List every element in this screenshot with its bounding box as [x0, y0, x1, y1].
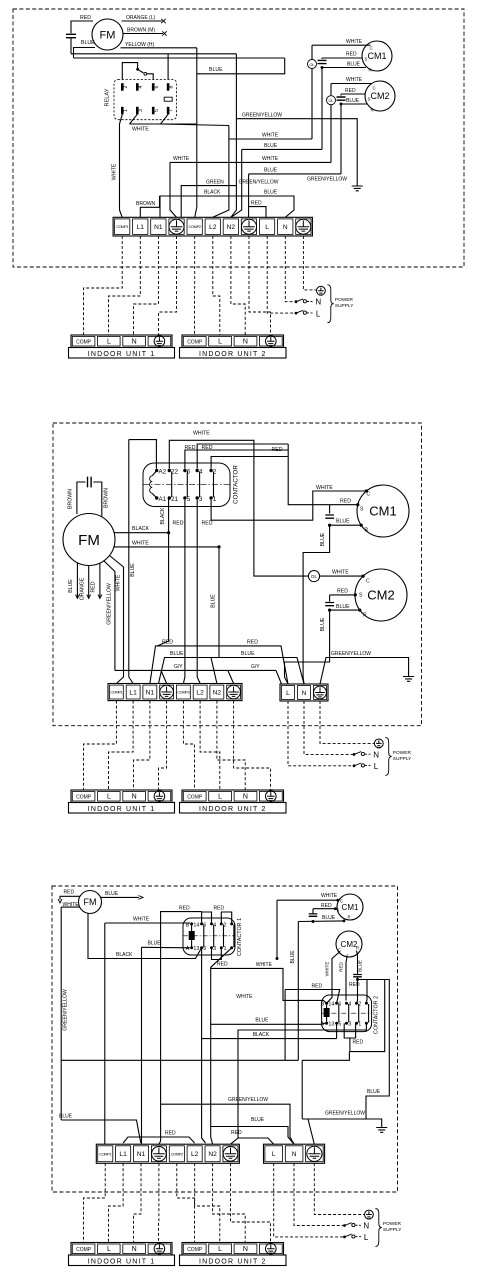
fan motor FM (diagram 1) [92, 19, 123, 50]
svg-text:5: 5 [203, 946, 206, 952]
wire G/Y b to earth (diagram 3) [302, 1119, 382, 1127]
contactor 1 pin 3 [220, 946, 223, 949]
svg-text:N: N [243, 1246, 248, 1253]
contactor 1 pin 14 [200, 922, 203, 925]
svg-text:RED: RED [231, 1130, 242, 1136]
power supply brace and label [327, 285, 333, 323]
wire BLACK from FM to contactor1 pin 13 [88, 913, 202, 958]
indoor unit block INDOOR UNIT 1 [71, 1243, 172, 1256]
capacitor on FM red lead [66, 34, 76, 37]
wire GREEN to earth terminal [181, 186, 236, 218]
wire WHITE to contactor1 B [105, 922, 190, 924]
svg-text:6: 6 [154, 85, 160, 88]
svg-text:BLUE: BLUE [320, 617, 326, 631]
svg-text:RED: RED [251, 200, 262, 206]
contactor pin 4 [196, 469, 199, 472]
svg-text:L: L [265, 224, 269, 231]
svg-text:L: L [107, 794, 111, 801]
svg-text:RED: RED [349, 982, 360, 988]
capacitor CM2 [340, 94, 342, 96]
wire contactor 1 to CM1 C WHITE [211, 491, 366, 520]
wire vertical bus to N2 (via green line) [231, 119, 237, 218]
svg-text:GREEN/YELLOW: GREEN/YELLOW [63, 989, 69, 1031]
wire RED to L [249, 207, 266, 218]
svg-text:L: L [107, 339, 111, 346]
relay pin 1 (bottom) [121, 107, 124, 115]
svg-text:BLUE: BLUE [68, 579, 74, 593]
svg-text:BLUE: BLUE [81, 40, 95, 46]
capacitor CM2 (diagram 2) [329, 595, 331, 602]
power supply brace and label [375, 1209, 381, 1247]
svg-text:N: N [243, 339, 248, 346]
svg-text:RED: RED [247, 640, 258, 646]
wire contactor2 13 down (black) [336, 1023, 338, 1038]
svg-text:BLUE: BLUE [264, 168, 278, 174]
contactor pin A1 [155, 496, 158, 499]
vertical bus to L2 [213, 126, 229, 218]
svg-text:INDOOR UNIT 2: INDOOR UNIT 2 [199, 806, 267, 813]
svg-text:RED: RED [179, 906, 190, 912]
svg-text:R: R [369, 68, 372, 73]
power supply switch N [295, 300, 298, 303]
svg-text:CONTACTOR 1: CONTACTOR 1 [237, 918, 243, 956]
contactor centre line [143, 483, 230, 485]
dashed leads to indoor unit 2 [194, 236, 196, 335]
power supply switch L [343, 1236, 346, 1239]
svg-text:RED: RED [202, 445, 213, 451]
wire WHITE from FM to COMP1 [110, 556, 124, 684]
power supply switch L [295, 312, 298, 315]
wire RED feed to earth terminal 1 [159, 912, 202, 1145]
svg-text:G/Y: G/Y [251, 664, 260, 670]
svg-text:BLUE: BLUE [336, 604, 350, 610]
dashed leads to power supply (diagram 3) [274, 1163, 343, 1237]
wire RED to CM2 S [330, 594, 356, 596]
dashed leads to power supply [267, 236, 294, 313]
svg-text:N: N [373, 750, 379, 759]
svg-text:BLUE: BLUE [209, 67, 223, 73]
svg-text:RED: RED [321, 903, 332, 909]
wire WHITE from FM (diagram 3) [61, 906, 79, 908]
svg-text:N2: N2 [213, 689, 222, 696]
svg-text:POWER: POWER [393, 750, 412, 756]
svg-text:A: A [186, 946, 190, 952]
svg-text:L: L [272, 1151, 276, 1158]
wire RED to CM1 S (diagram 3) [313, 908, 335, 910]
svg-text:N1: N1 [137, 1151, 146, 1158]
svg-text:WHITE: WHITE [132, 540, 149, 546]
svg-text:N2: N2 [208, 1151, 217, 1158]
relay dashed outline [114, 80, 177, 120]
svg-text:BLUE: BLUE [347, 62, 361, 68]
svg-text:COMP: COMP [76, 1247, 92, 1253]
svg-text:WHITE: WHITE [346, 39, 363, 45]
contactor 1 outline [183, 918, 235, 955]
wire relay pin8 to bus [167, 54, 169, 80]
svg-text:L: L [316, 309, 321, 318]
compressor motor CM2 (diagram 3) [336, 931, 362, 957]
svg-text:COMP: COMP [76, 340, 92, 346]
svg-text:SUPPLY: SUPPLY [383, 1227, 402, 1233]
svg-text:WHITE: WHITE [256, 962, 273, 968]
relay pin 5 (bottom) [152, 107, 155, 115]
CM2 wires down WHITE RED BLUE [327, 952, 340, 1004]
contactor 1 pin A [190, 946, 193, 949]
terminal block outdoor 3b [264, 1144, 325, 1163]
svg-text:WHITE: WHITE [236, 994, 253, 1000]
svg-text:N: N [302, 690, 307, 697]
contactor 2 red staple bottom [344, 1023, 355, 1038]
wire WHITE bus to CM1 white [229, 138, 312, 140]
svg-text:1: 1 [224, 946, 227, 952]
dashed leads to indoor unit 1 (diagram 2) [84, 701, 117, 790]
svg-text:R: R [363, 613, 367, 619]
svg-text:L: L [218, 794, 222, 801]
svg-text:3: 3 [138, 109, 144, 112]
svg-text:WHITE: WHITE [262, 132, 279, 138]
wire GREEN/YELLOW left vertical [60, 907, 62, 1120]
contactor 2 outline [322, 995, 372, 1032]
svg-text:CM1: CM1 [342, 903, 359, 912]
wire RED to CM1 S [330, 504, 358, 506]
contactor pin 21 [168, 496, 171, 499]
svg-text:BLACK: BLACK [253, 1032, 270, 1038]
svg-text:4: 4 [138, 85, 144, 88]
contactor 2 pin 5 [345, 1022, 348, 1025]
svg-text:R: R [348, 915, 351, 920]
svg-text:WHITE: WHITE [133, 917, 150, 923]
svg-text:L: L [374, 762, 379, 771]
contactor pin 6 [183, 469, 186, 472]
svg-text:L2: L2 [191, 1151, 199, 1158]
wire ORANGE (L) speed tap [122, 20, 163, 22]
svg-text:R: R [356, 946, 359, 951]
svg-text:BLUE: BLUE [322, 915, 336, 921]
wire CM1 blue down to N [303, 525, 330, 684]
relay pin 8 (top) [167, 83, 170, 91]
svg-text:N: N [315, 298, 321, 307]
svg-text:COMP2: COMP2 [189, 224, 201, 229]
outdoor unit dashed border (diagram 3) [52, 886, 398, 1192]
svg-text:RED: RED [339, 961, 344, 971]
svg-text:BLUE: BLUE [105, 891, 119, 897]
svg-text:N: N [283, 224, 288, 231]
svg-text:BLACK: BLACK [132, 526, 150, 532]
wire CM2 cap junction to right bus [358, 980, 390, 1120]
contactor 2 pin 14 [335, 1002, 338, 1005]
contactor 1 red staples top [202, 912, 212, 924]
svg-text:L: L [218, 1246, 222, 1253]
contactor 1 contact bars [203, 925, 205, 948]
contactor coil [152, 471, 157, 476]
svg-text:COMP2: COMP2 [177, 690, 189, 695]
svg-text:BLACK: BLACK [160, 507, 166, 525]
wire G/Y bus to earth terminals [115, 669, 276, 671]
svg-text:N: N [292, 1151, 297, 1158]
power supply switch L [353, 764, 356, 767]
svg-text:BLUE: BLUE [170, 651, 184, 657]
svg-text:L: L [286, 690, 290, 697]
contactor 1 coil [189, 932, 194, 940]
dashed leads to power supply (diagram 2) [288, 701, 353, 766]
svg-text:WHITE: WHITE [321, 893, 338, 899]
wire BLACK / BLUE bus [160, 196, 294, 217]
wire BLACK from FM to contactor 21 [114, 532, 169, 534]
terminal block outdoor 2b [280, 684, 328, 701]
svg-text:N: N [132, 794, 137, 801]
svg-text:CONTACTOR: CONTACTOR [232, 465, 239, 504]
svg-text:BROWN: BROWN [136, 201, 156, 207]
contactor pin 3 [196, 496, 199, 499]
svg-text:BLUE: BLUE [264, 190, 278, 196]
svg-text:COMP1: COMP1 [110, 690, 122, 695]
svg-text:GREEN/YELLOW: GREEN/YELLOW [239, 179, 279, 185]
svg-text:WHITE: WHITE [324, 962, 329, 977]
svg-text:C: C [340, 899, 343, 904]
svg-text:BLUE: BLUE [367, 1089, 381, 1095]
svg-text:FM: FM [78, 532, 100, 549]
terminal block outdoor 3a [96, 1144, 239, 1163]
svg-text:FM: FM [100, 30, 116, 42]
svg-text:CM1: CM1 [367, 51, 386, 61]
wire branch to contactor 2 pin 2 [365, 980, 368, 1004]
contactor 1 red staple bottom [212, 948, 222, 960]
earth symbol (diagram 2) [403, 677, 414, 682]
svg-text:13: 13 [328, 1022, 334, 1028]
svg-text:WHITE: WHITE [173, 156, 190, 162]
svg-text:WHITE: WHITE [132, 127, 149, 133]
svg-text:L2: L2 [209, 224, 217, 231]
wire RED feed to contactor 2 pin 14 [285, 990, 340, 1004]
svg-text:1: 1 [123, 109, 129, 112]
svg-text:INDOOR UNIT 1: INDOOR UNIT 1 [88, 1258, 156, 1265]
svg-text:RED: RED [64, 890, 75, 896]
svg-text:5: 5 [154, 109, 160, 112]
svg-text:RED: RED [202, 521, 213, 527]
svg-text:BLUE: BLUE [59, 1114, 73, 1120]
svg-text:3: 3 [213, 946, 216, 952]
svg-text:L: L [218, 339, 222, 346]
svg-text:RED: RED [353, 1040, 364, 1046]
contactor 2 pin 4 [355, 1002, 358, 1005]
svg-text:BLUE: BLUE [357, 960, 362, 972]
capacitor CM1 (diagram 3) [312, 909, 314, 914]
svg-text:14: 14 [193, 922, 199, 928]
svg-text:L: L [107, 1246, 111, 1253]
svg-text:BLACK: BLACK [204, 190, 221, 196]
wire WHITE to CM2 C [331, 83, 372, 85]
svg-text:OL: OL [328, 99, 333, 103]
svg-text:13: 13 [193, 946, 199, 952]
svg-text:RED: RED [80, 15, 91, 21]
power supply switch N [343, 1224, 346, 1227]
power supply switch N [353, 753, 356, 756]
svg-text:BLACK: BLACK [116, 952, 133, 958]
wire BLUE to CM2 R [341, 103, 367, 105]
svg-text:BLUE: BLUE [346, 98, 360, 104]
wire relay pin1 down WHITE to COMP1 [120, 114, 123, 217]
svg-text:C: C [373, 86, 376, 91]
svg-text:A: A [321, 1022, 325, 1028]
contactor pin 22 [168, 469, 171, 472]
overload protector OL (diagram 2) [308, 571, 319, 582]
wire G/Y bus to N (diagram 3) [161, 1104, 294, 1144]
svg-text:SUPPLY: SUPPLY [393, 756, 412, 762]
capacitor CM1 (diagram 2) [329, 505, 331, 514]
FM speed taps BLUE ORANGE RED with arrows [76, 563, 78, 598]
svg-text:BLUE: BLUE [255, 1018, 269, 1024]
svg-text:FM: FM [84, 897, 97, 907]
svg-text:S: S [368, 97, 371, 102]
svg-text:COMP2: COMP2 [171, 1151, 183, 1156]
compressor motor CM1 (diagram 3) [337, 894, 363, 920]
svg-text:N1: N1 [154, 224, 163, 231]
contactor 2 centre line [322, 1012, 372, 1014]
wire CM2 blue down to L [285, 610, 330, 684]
svg-text:WHITE: WHITE [112, 163, 118, 180]
svg-text:INDOOR UNIT 1: INDOOR UNIT 1 [88, 806, 156, 813]
compressor motor CM1 (diagram 1) [362, 41, 392, 71]
svg-text:COMP: COMP [76, 795, 92, 801]
svg-text:WHITE: WHITE [346, 77, 363, 83]
outdoor unit dashed border (diagram 1) [13, 9, 464, 267]
indoor unit block INDOOR UNIT 2 [182, 790, 284, 803]
wire BLUE bus to CM2 cap [249, 173, 341, 175]
relay pin 6 (top) [152, 83, 155, 91]
relay pin 2 (top) [121, 83, 124, 91]
wire GREEN/YELLOW to earth (diagram 2) [320, 658, 409, 685]
contactor outline (diagram 2) [143, 463, 230, 507]
internal overload protector OL (CM2) [330, 84, 332, 96]
contactor 1 pin 13 [200, 946, 203, 949]
svg-text:ORANGE: ORANGE [79, 577, 85, 600]
wire WHITE staircase to contactor2 B [211, 968, 327, 1003]
svg-text:L1: L1 [119, 1151, 127, 1158]
wire contactor 2 loop to G/Y bus [302, 1052, 349, 1061]
svg-text:RED: RED [165, 1131, 176, 1137]
svg-text:BLUE: BLUE [251, 1117, 265, 1123]
relay pin 7 (bottom) [167, 107, 170, 115]
svg-text:RED: RED [345, 88, 356, 94]
contactor 1 pin 2 [230, 922, 233, 925]
svg-text:BLUE: BLUE [336, 519, 350, 525]
svg-text:BROWN: BROWN [68, 489, 74, 509]
compressor motor CM1 (diagram 2) [357, 485, 409, 537]
capacitor CM1 [321, 58, 323, 59]
power supply earth terminal [374, 739, 383, 748]
wire GREEN/YELLOW to earth [236, 54, 357, 186]
wire BLUE to CM1 R [330, 524, 362, 526]
wire BLUE to CM1 R [322, 67, 366, 69]
relay pin 4 (top) [136, 83, 139, 91]
indoor unit block INDOOR UNIT 1 [71, 335, 172, 348]
svg-text:BLUE: BLUE [264, 143, 278, 149]
wire white relay bus to L2 [161, 124, 229, 126]
svg-text:YELLOW (H): YELLOW (H) [125, 42, 155, 48]
compressor motor CM2 (diagram 2) [355, 569, 407, 621]
bus wire from FM blue [74, 57, 285, 59]
svg-text:BLUE: BLUE [320, 532, 326, 546]
contactor 1 pin B [190, 922, 193, 925]
indoor unit block INDOOR UNIT 1 [71, 790, 172, 803]
svg-text:R: R [371, 108, 374, 113]
svg-text:GREEN: GREEN [206, 179, 224, 185]
contactor 1 pin 6 [210, 922, 213, 925]
wire BLUE bus to N (diagram 3) [211, 1127, 294, 1145]
wire contactor2 1 down to RED-b bus [231, 1023, 367, 1144]
outdoor unit dashed border (diagram 2) [53, 423, 422, 726]
svg-text:RELAY: RELAY [105, 88, 111, 106]
svg-text:COMP1: COMP1 [99, 1151, 111, 1156]
wire RED a L1 to L2 [123, 1137, 195, 1143]
svg-text:G/Y: G/Y [174, 664, 183, 670]
svg-text:WHITE: WHITE [116, 574, 122, 591]
wire BROWN (M) speed tap [123, 33, 164, 35]
svg-text:A1: A1 [159, 496, 167, 503]
relay coil symbol [164, 97, 172, 101]
svg-text:GREEN/YELLOW: GREEN/YELLOW [331, 651, 371, 657]
wire from capacitor to bus [70, 38, 72, 54]
svg-text:WHITE: WHITE [332, 569, 349, 575]
contactor contact bars [171, 472, 173, 498]
power supply earth terminal [317, 286, 326, 295]
wire BLACK to contactor 2 pin 13 [202, 1038, 337, 1040]
svg-text:RED: RED [272, 447, 283, 453]
wire to contactor A2 and L1 [129, 440, 157, 469]
indoor unit block INDOOR UNIT 2 [182, 335, 284, 348]
power supply earth terminal [365, 1210, 374, 1219]
contactor 1 pin 5 [210, 946, 213, 949]
wire BLUE from FM [74, 48, 96, 59]
svg-text:B: B [186, 922, 190, 928]
svg-text:BLUE: BLUE [130, 563, 136, 577]
svg-text:WHITE: WHITE [316, 485, 333, 491]
svg-text:GREEN/YELLOW: GREEN/YELLOW [242, 112, 282, 118]
svg-text:BLUE: BLUE [148, 941, 162, 947]
relay pin 3 (bottom) [136, 107, 139, 115]
svg-text:POWER: POWER [335, 297, 354, 303]
svg-text:BLUE: BLUE [210, 594, 216, 608]
svg-text:WHITE: WHITE [63, 902, 80, 908]
svg-text:INDOOR UNIT 2: INDOOR UNIT 2 [199, 351, 267, 358]
svg-text:INDOOR UNIT 2: INDOOR UNIT 2 [199, 1258, 267, 1265]
earth symbol (diagram 1) [352, 186, 363, 191]
wire WHITE from FM right [114, 546, 219, 548]
relay switch armature [122, 63, 137, 80]
wire YELLOW (H) speed tap [121, 47, 197, 49]
dashed leads to indoor unit 1 (diagram 3) [84, 1163, 106, 1242]
svg-text:CM1: CM1 [369, 504, 396, 519]
svg-text:RED: RED [346, 52, 357, 58]
svg-text:BROWN (M): BROWN (M) [127, 28, 155, 34]
wire RED to CM1 S [322, 57, 362, 59]
wire contactor1 pin 1 down to N2 [211, 948, 232, 1144]
svg-text:N: N [243, 794, 248, 801]
svg-text:GREEN/YELLOW: GREEN/YELLOW [307, 177, 347, 183]
wire CM2 blue to contactor 2 pin 4 [357, 980, 358, 1004]
svg-text:RED: RED [337, 588, 348, 594]
svg-text:CM2: CM2 [370, 91, 389, 101]
svg-text:A2: A2 [159, 468, 167, 475]
wire BLUE to contactor1 A [142, 946, 190, 949]
svg-text:COMP1: COMP1 [116, 224, 128, 229]
svg-text:GREEN/YELLOW: GREEN/YELLOW [228, 1097, 268, 1103]
contactor 2 coil [324, 1009, 329, 1017]
capacitor CM2 (diagram 3) [353, 975, 362, 977]
vertical bus to COMP2 [195, 48, 197, 218]
dashed leads to indoor unit 1 [84, 236, 123, 335]
contactor 2 pin 13 [335, 1022, 338, 1025]
